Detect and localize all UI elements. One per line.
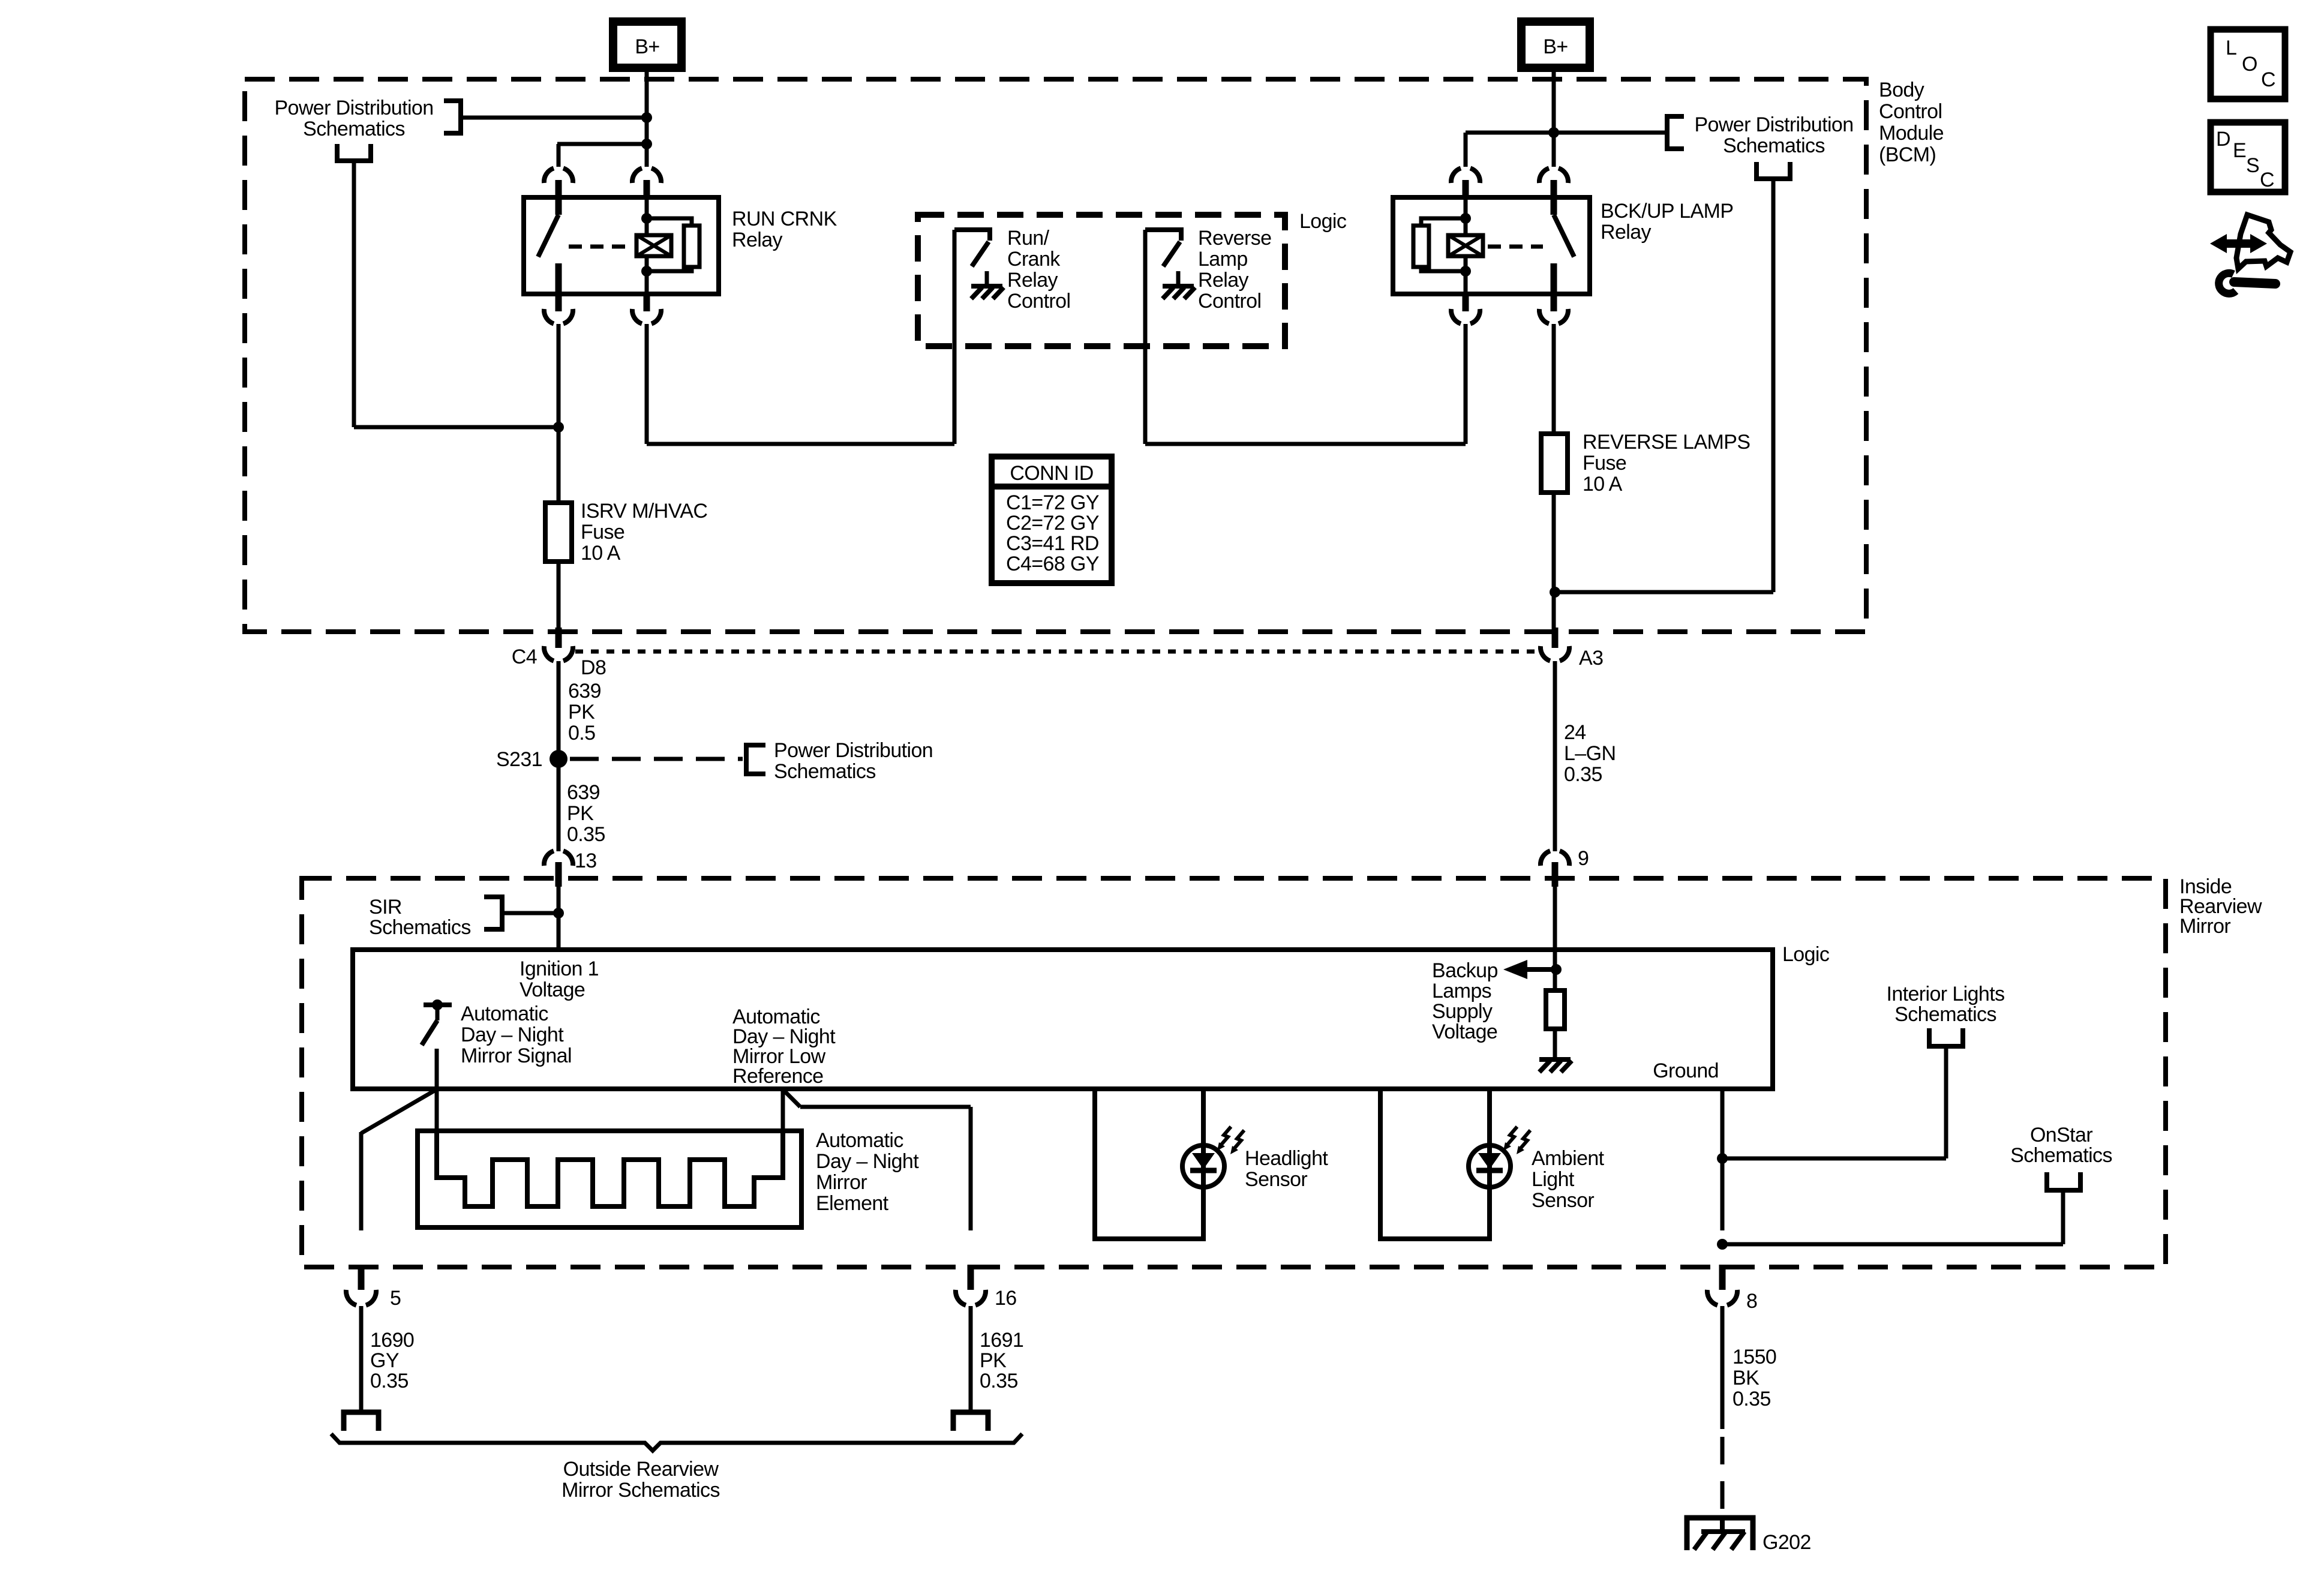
wire: fuse to connector A3 [1552, 493, 1556, 631]
svg-text:PK: PK [567, 802, 594, 825]
label: Reverse Lamp Relay Control [1198, 227, 1271, 313]
switch: Automatic Day-Night Mirror Signal driver [424, 1002, 452, 1007]
svg-text:Schematics: Schematics [1723, 134, 1825, 157]
svg-text:10 A: 10 A [1583, 473, 1623, 496]
svg-text:Lamp: Lamp [1198, 248, 1248, 271]
ambient sensor loop [1380, 1089, 1490, 1239]
svg-text:ISRV M/HVAC: ISRV M/HVAC [581, 500, 707, 523]
svg-text:Mirror Signal: Mirror Signal [461, 1044, 572, 1067]
label: Interior Lights Schematics [1887, 983, 2005, 1026]
svg-text:Power Distribution: Power Distribution [274, 97, 433, 119]
wire: Reverse Lamp control to BCK/UP coil low side [1143, 230, 1148, 444]
node: junction B+ / relay branch [641, 139, 652, 149]
svg-text:C: C [2261, 68, 2275, 91]
wire: B+ left feed down into BCM [645, 68, 649, 167]
wire: diagonal to pin 16 feed [783, 1089, 800, 1107]
connector pin: BCK/UP relay switch-side bottom [1551, 294, 1557, 311]
label: REVERSE LAMPS Fuse 10 A [1583, 431, 1750, 496]
label: Backup Lamps Supply Voltage [1432, 959, 1498, 1043]
dashed actuation link (BCK/UP) [1488, 245, 1543, 249]
label: Automatic Day-Night Mirror Low Reference [732, 1005, 836, 1088]
wire 639 PK 0.35 [557, 767, 561, 851]
svg-text:Ignition 1: Ignition 1 [520, 957, 599, 980]
svg-text:13: 13 [575, 849, 597, 872]
svg-text:C: C [2260, 169, 2274, 191]
svg-text:G202: G202 [1762, 1531, 1811, 1554]
svg-text:Schematics: Schematics [2010, 1144, 2112, 1167]
svg-text:PK: PK [568, 701, 595, 724]
node: junction OnStar tap [1717, 1239, 1728, 1250]
wire: diagonal to pin 5 [361, 1090, 436, 1133]
svg-text:Schematics: Schematics [369, 916, 471, 939]
LOC icon box [2211, 29, 2285, 99]
svg-text:Power Distribution: Power Distribution [774, 739, 933, 762]
svg-text:Schematics: Schematics [774, 760, 876, 783]
svg-text:0.35: 0.35 [1733, 1388, 1771, 1410]
CONN ID table [992, 457, 1112, 583]
svg-text:8: 8 [1746, 1290, 1757, 1313]
svg-text:BCK/UP LAMP: BCK/UP LAMP [1601, 200, 1733, 223]
power symbol B+ (right feed) [1521, 22, 1590, 68]
label: 1691 PK 0.35 [980, 1329, 1023, 1392]
wire: branch to Power Distribution Schematics (right) [1554, 131, 1665, 135]
photodiode: Ambient Light Sensor [1469, 1145, 1511, 1187]
connector pin 8 [1719, 1265, 1726, 1290]
connector pin: BCK/UP relay coil-side bottom [1463, 294, 1469, 311]
ground symbol: Run/Crank control internal ground [985, 271, 989, 286]
label: Automatic Day-Night Mirror Element [816, 1129, 919, 1215]
svg-text:OnStar: OnStar [2030, 1124, 2092, 1146]
svg-text:B+: B+ [1543, 35, 1568, 58]
label: 24 L-GN 0.35 [1564, 721, 1616, 786]
connector pin 9 (mirror) [1541, 851, 1569, 866]
wire: mirror signal output [435, 1049, 439, 1133]
svg-text:C2=72 GY: C2=72 GY [1006, 512, 1099, 535]
label: Ambient Light Sensor [1532, 1147, 1605, 1212]
svg-text:REVERSE LAMPS: REVERSE LAMPS [1583, 431, 1750, 454]
connector body dotted line C4-A3 [575, 650, 1538, 654]
light arrows (ambient sensor) [1506, 1127, 1517, 1146]
svg-text:0.35: 0.35 [980, 1370, 1018, 1392]
off-page terminator pin 16 [953, 1412, 988, 1431]
node: coil bottom junction [641, 266, 652, 277]
wire 639 PK 0.5 [557, 661, 561, 751]
svg-text:Automatic: Automatic [816, 1129, 903, 1152]
connector pin: RUN CRNK relay coil-side bottom [644, 294, 650, 311]
svg-text:24: 24 [1564, 721, 1586, 744]
svg-text:1550: 1550 [1733, 1346, 1776, 1368]
BCM Logic dashed box [918, 215, 1285, 346]
relay K1 RUN CRNK Relay box [524, 197, 719, 294]
svg-text:Backup: Backup [1432, 959, 1498, 982]
relay switch contact (BCK/UP) [1551, 199, 1557, 215]
label: RUN CRNK Relay [732, 208, 837, 251]
connector pin 16 [968, 1265, 974, 1290]
svg-text:Voltage: Voltage [1432, 1020, 1497, 1043]
svg-text:Day – Night: Day – Night [816, 1150, 919, 1173]
label: Ignition 1 Voltage [520, 957, 599, 1001]
photodiode: Headlight Sensor [1182, 1145, 1224, 1187]
svg-text:Mirror: Mirror [2179, 915, 2230, 938]
node: coil top junction [641, 213, 652, 224]
svg-text:Run/: Run/ [1007, 227, 1050, 250]
svg-text:GY: GY [370, 1349, 399, 1372]
light arrows (headlight sensor) [1220, 1127, 1231, 1146]
wire: pin 9 into logic [1553, 887, 1557, 992]
svg-text:Interior Lights: Interior Lights [1887, 983, 2005, 1005]
label: Outside Rearview Mirror Schematics [562, 1458, 720, 1502]
svg-text:BK: BK [1733, 1367, 1759, 1389]
svg-text:B+: B+ [635, 35, 659, 58]
svg-text:0.5: 0.5 [568, 722, 595, 745]
svg-text:Ground: Ground [1653, 1059, 1719, 1082]
connector pin 13 (mirror) [544, 851, 573, 866]
node: junction SIR schematics tap [553, 908, 564, 918]
dashed reference wire from S231 [570, 757, 743, 761]
svg-text:C3=41 RD: C3=41 RD [1006, 532, 1099, 555]
svg-text:Control: Control [1198, 290, 1261, 313]
svg-text:(BCM): (BCM) [1879, 143, 1936, 166]
svg-text:Module: Module [1879, 122, 1944, 145]
wire 1690 GY 0.35 [359, 1306, 364, 1411]
svg-text:Fuse: Fuse [581, 521, 624, 544]
arrow: Backup Lamps Supply Voltage sense [1526, 967, 1556, 972]
svg-text:Power Distribution: Power Distribution [1694, 113, 1853, 136]
svg-text:RUN CRNK: RUN CRNK [732, 208, 837, 230]
wire: to SIR Schematics [505, 911, 559, 915]
node: junction at reverse lamps fuse wire [1550, 587, 1560, 598]
wire: element right terminal to Mirror Low Reference [781, 1089, 785, 1131]
svg-text:0.35: 0.35 [370, 1370, 409, 1392]
label: OnStar Schematics [2010, 1124, 2112, 1167]
svg-text:Sensor: Sensor [1532, 1189, 1594, 1212]
svg-text:Relay: Relay [1198, 269, 1249, 292]
transistor switch: Run/Crank Relay Control [954, 230, 990, 241]
svg-text:D: D [2216, 128, 2230, 151]
connector pin: BCK/UP relay switch-side top (x=2590) [1539, 168, 1568, 183]
label: Inside Rearview Mirror [2179, 875, 2262, 938]
label: 1550 BK 0.35 [1733, 1346, 1776, 1410]
reference bracket: Interior Lights Schematics [1929, 1028, 1963, 1046]
svg-text:PK: PK [980, 1349, 1007, 1372]
wire 1691 PK 0.35 [969, 1306, 973, 1411]
reference bracket: OnStar Schematics [2047, 1172, 2080, 1190]
label: 639 PK 0.5 [568, 680, 601, 745]
svg-text:639: 639 [568, 680, 601, 703]
fuse F1 ISRV M/HVAC 10A [557, 324, 561, 504]
wire: B+ right feed down into BCM [1552, 68, 1556, 167]
relay coil (RUN CRNK) [645, 197, 649, 235]
label: Automatic Day-Night Mirror Signal [461, 1002, 572, 1067]
wire: branch to Power Distribution Schematics (left) [462, 116, 647, 120]
svg-text:C1=72 GY: C1=72 GY [1006, 491, 1099, 514]
svg-text:Element: Element [816, 1192, 889, 1215]
svg-text:Supply: Supply [1432, 1000, 1493, 1023]
svg-text:SIR: SIR [369, 896, 402, 918]
connector pin 5 [358, 1265, 365, 1290]
svg-text:CONN ID: CONN ID [1010, 462, 1093, 485]
svg-text:Voltage: Voltage [520, 978, 585, 1001]
node: junction Interior Lights tap [1717, 1153, 1728, 1164]
dashed actuation link (RUN CRNK) [569, 245, 631, 249]
connector pin: RUN CRNK relay switch-side bottom [556, 294, 562, 311]
headlight sensor loop [1095, 1089, 1203, 1239]
connector pin: RUN CRNK relay coil-side top (x=1078) [632, 168, 661, 183]
wire: branch to BCK/UP relay coil pin [1466, 131, 1554, 135]
wire: Power Distribution feed down to reverse lamps wire [1771, 179, 1776, 592]
wire: to Interior Lights Schematics [1722, 1157, 1946, 1161]
svg-text:Sensor: Sensor [1245, 1168, 1307, 1191]
label: ISRV M/HVAC Fuse 10 A [581, 500, 707, 565]
wire: logic Ground pin down [1721, 1089, 1725, 1230]
resistor across BCK/UP coil [1421, 218, 1466, 271]
svg-text:Control: Control [1007, 290, 1070, 313]
svg-text:Control: Control [1879, 100, 1942, 123]
resistor across RUN CRNK coil [647, 218, 692, 271]
relay K2 BCK/UP LAMP Relay box [1393, 197, 1590, 294]
node: junction at ISRV fuse wire [553, 422, 564, 433]
wire: RUN CRNK coil low side to Run/Crank control [645, 324, 649, 444]
off-page terminator pin 5 [344, 1412, 379, 1431]
svg-text:Mirror Schematics: Mirror Schematics [562, 1479, 720, 1502]
svg-text:O: O [2242, 53, 2257, 76]
navigation icon: arrows / vehicle / wrench [2210, 215, 2290, 293]
svg-text:C4=68 GY: C4=68 GY [1006, 553, 1099, 575]
svg-text:Relay: Relay [732, 229, 783, 251]
svg-text:Fuse: Fuse [1583, 452, 1626, 475]
relay switch contact (RUN CRNK) [556, 199, 562, 215]
label: BCK/UP LAMP Relay [1601, 200, 1733, 244]
dashed wire to G202 [1721, 1437, 1725, 1515]
Inside Rearview Mirror dashed boundary [302, 878, 2166, 1267]
svg-text:Lamps: Lamps [1432, 980, 1491, 1002]
node: junction backup lamps sense [1551, 964, 1562, 975]
connector C4 pin D8 (BCM bottom left) [556, 628, 562, 648]
label: Headlight Sensor [1245, 1147, 1328, 1191]
reference bracket: Power Distribution Schematics (S231) [746, 745, 765, 774]
reference bracket: SIR Schematics [484, 897, 502, 929]
svg-text:16: 16 [995, 1287, 1017, 1310]
svg-text:Headlight: Headlight [1245, 1147, 1328, 1170]
mirror Logic box [353, 950, 1773, 1089]
wire 1550 BK 0.35 [1721, 1306, 1725, 1429]
wire: to OnStar Schematics [1722, 1242, 2063, 1247]
label: Power Distribution Schematics (right) [1694, 113, 1853, 157]
wire: fuse to connector C4 [557, 562, 561, 631]
reference bracket: Power Distribution down-feed (right) [1756, 162, 1790, 179]
svg-text:Logic: Logic [1299, 210, 1347, 233]
svg-text:1691: 1691 [980, 1329, 1023, 1352]
svg-text:639: 639 [567, 781, 600, 804]
svg-text:Mirror: Mirror [816, 1171, 867, 1194]
svg-text:S231: S231 [496, 748, 542, 771]
svg-text:1690: 1690 [370, 1329, 414, 1352]
wire: pin 13 into mirror [557, 887, 561, 950]
reference bracket: Power Distribution down-feed [337, 144, 371, 161]
label: 639 PK 0.35 [567, 781, 605, 846]
svg-text:L: L [2226, 37, 2236, 59]
label: Power Distribution Schematics (S231) [774, 739, 933, 783]
svg-text:E: E [2233, 139, 2246, 162]
svg-text:5: 5 [390, 1287, 401, 1310]
transistor switch: Reverse Lamp Relay Control [1145, 230, 1181, 241]
splice S231 [550, 750, 568, 768]
connector A3 (BCM bottom right) [1552, 628, 1559, 648]
ground G202 symbol [1687, 1515, 1753, 1550]
label: SIR Schematics [369, 896, 471, 939]
wire: Power Distribution feed down to fuse wire [352, 161, 356, 427]
ground symbol: Reverse Lamp control internal ground [1176, 271, 1181, 286]
svg-text:10 A: 10 A [581, 542, 621, 565]
node: coil bottom junction (BCK/UP) [1460, 266, 1471, 277]
Automatic Day-Night Mirror Element box [418, 1131, 801, 1227]
label: Body Control Module (BCM) [1879, 79, 1944, 166]
svg-text:Body: Body [1879, 79, 1924, 101]
svg-text:D8: D8 [581, 656, 606, 679]
relay coil (BCK/UP) [1464, 197, 1468, 235]
svg-text:Schematics: Schematics [303, 118, 405, 140]
connector pin: RUN CRNK relay switch-side top (x=931) [544, 168, 573, 183]
label: 1690 GY 0.35 [370, 1329, 414, 1392]
Body Control Module (BCM) dashed boundary [245, 79, 1866, 632]
svg-text:S: S [2246, 154, 2259, 177]
brace: outside rearview mirror group [331, 1434, 1022, 1451]
power symbol B+ (left feed) [613, 22, 681, 68]
svg-text:Outside Rearview: Outside Rearview [563, 1458, 719, 1481]
ground symbol: logic internal ground [1553, 1044, 1557, 1059]
node: coil top junction (BCK/UP) [1460, 213, 1471, 224]
svg-text:C4: C4 [512, 646, 537, 668]
svg-text:Crank: Crank [1007, 248, 1061, 271]
node: junction B+ / power distribution branch [641, 112, 652, 123]
svg-text:Reference: Reference [732, 1065, 823, 1088]
resistor: backup lamps pull-down [1546, 990, 1565, 1029]
reference bracket: Power Distribution Schematics (top left) [444, 101, 461, 133]
label: Run/Crank Relay Control [1007, 227, 1070, 313]
wire 24 L-GN 0.35 [1553, 661, 1557, 851]
svg-text:0.35: 0.35 [567, 823, 605, 846]
connector pin: BCK/UP relay coil-side top (x=2443) [1451, 168, 1480, 183]
svg-text:Reverse: Reverse [1198, 227, 1271, 250]
wire: branch to RUN CRNK relay switch pin [557, 142, 647, 146]
DESC icon box [2211, 122, 2285, 192]
svg-text:Day – Night: Day – Night [461, 1023, 564, 1046]
reference bracket: Power Distribution Schematics (right) [1667, 116, 1684, 149]
svg-text:9: 9 [1578, 847, 1589, 870]
svg-text:L–GN: L–GN [1564, 742, 1616, 765]
node: junction B+ / BCK/UP coil branch [1548, 127, 1559, 138]
fuse F2 REVERSE LAMPS 10A [1552, 324, 1556, 435]
label: Power Distribution Schematics (top left) [274, 97, 433, 140]
svg-text:Relay: Relay [1601, 221, 1652, 244]
svg-text:Relay: Relay [1007, 269, 1058, 292]
svg-text:Logic: Logic [1782, 943, 1830, 966]
svg-text:Light: Light [1532, 1168, 1575, 1191]
svg-text:A3: A3 [1579, 647, 1603, 670]
svg-text:Ambient: Ambient [1532, 1147, 1605, 1170]
svg-text:Schematics: Schematics [1894, 1003, 1996, 1026]
mirror element resistive zigzag [437, 1131, 783, 1206]
svg-text:Automatic: Automatic [461, 1002, 548, 1025]
svg-text:0.35: 0.35 [1564, 763, 1602, 786]
